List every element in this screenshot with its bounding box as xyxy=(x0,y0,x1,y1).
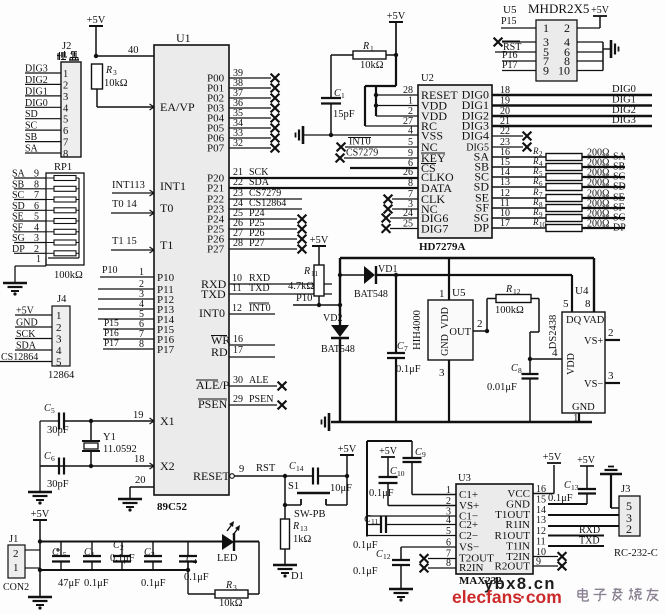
svg-text:5: 5 xyxy=(408,137,413,148)
svg-text:SF: SF xyxy=(12,222,24,233)
svg-text:8: 8 xyxy=(518,366,522,375)
svg-text:2: 2 xyxy=(477,318,483,330)
svg-text:VDD: VDD xyxy=(440,307,451,329)
svg-text:RST: RST xyxy=(256,463,276,474)
svg-text:0.1μF: 0.1μF xyxy=(353,566,378,577)
svg-text:Y1: Y1 xyxy=(103,432,116,443)
svg-text:+5V: +5V xyxy=(16,306,35,317)
svg-text:7: 7 xyxy=(34,190,39,201)
svg-text:3: 3 xyxy=(56,334,62,346)
svg-text:U2: U2 xyxy=(421,73,434,84)
svg-text:DIG2: DIG2 xyxy=(25,75,48,86)
svg-text:32: 32 xyxy=(233,138,243,149)
svg-text:C: C xyxy=(44,403,51,414)
svg-text:SA: SA xyxy=(25,144,39,155)
svg-text:28: 28 xyxy=(233,238,243,249)
svg-text:P16: P16 xyxy=(104,329,119,339)
svg-text:VS−: VS− xyxy=(584,379,603,390)
svg-text:9: 9 xyxy=(34,169,39,180)
svg-text:ALE: ALE xyxy=(249,375,268,386)
svg-text:20: 20 xyxy=(135,475,146,486)
svg-text:LED: LED xyxy=(217,553,238,564)
svg-text:0.1μF: 0.1μF xyxy=(396,364,421,375)
svg-text:4: 4 xyxy=(446,515,451,526)
svg-text:30pF: 30pF xyxy=(47,425,69,436)
svg-text:R: R xyxy=(105,65,112,76)
svg-text:0.1μF: 0.1μF xyxy=(84,578,109,589)
svg-text:DQ: DQ xyxy=(566,315,582,326)
svg-text:1: 1 xyxy=(439,288,445,300)
svg-text:R: R xyxy=(292,521,299,532)
svg-text:T1 15: T1 15 xyxy=(112,236,137,247)
svg-text:SCK: SCK xyxy=(16,329,36,340)
svg-text:R: R xyxy=(225,580,232,591)
svg-text:C: C xyxy=(84,547,91,558)
svg-text:8: 8 xyxy=(139,339,144,350)
svg-text:13: 13 xyxy=(300,524,308,533)
svg-text:SDA: SDA xyxy=(249,177,270,188)
svg-text:7: 7 xyxy=(539,191,543,199)
svg-text:P17: P17 xyxy=(157,344,175,356)
svg-text:10kΩ: 10kΩ xyxy=(104,78,128,89)
svg-text:1: 1 xyxy=(543,21,549,35)
svg-text:INT0: INT0 xyxy=(199,306,225,320)
svg-text:4.7kΩ: 4.7kΩ xyxy=(288,281,314,292)
svg-text:EA/VP: EA/VP xyxy=(160,100,195,114)
svg-text:C: C xyxy=(113,540,120,551)
svg-text:12: 12 xyxy=(536,526,546,537)
svg-text:R: R xyxy=(532,207,539,217)
svg-text:RD: RD xyxy=(211,345,228,359)
svg-text:INT113: INT113 xyxy=(112,180,145,191)
svg-text:4: 4 xyxy=(539,160,543,168)
svg-text:T0: T0 xyxy=(160,201,173,215)
svg-text:0.1μF: 0.1μF xyxy=(110,553,135,564)
svg-text:T1: T1 xyxy=(160,238,173,252)
svg-text:+5V: +5V xyxy=(310,235,329,246)
svg-text:R: R xyxy=(532,156,539,166)
svg-text:RP1: RP1 xyxy=(54,162,72,173)
svg-text:U5: U5 xyxy=(503,4,517,16)
svg-text:J2: J2 xyxy=(62,41,71,52)
svg-text:DIG1: DIG1 xyxy=(25,86,48,97)
svg-text:+5V: +5V xyxy=(577,455,596,466)
svg-text:P10: P10 xyxy=(102,265,118,276)
svg-text:INT0: INT0 xyxy=(349,137,371,148)
svg-text:SE: SE xyxy=(12,212,24,223)
svg-text:0.1μF: 0.1μF xyxy=(141,578,166,589)
svg-text:SA: SA xyxy=(12,169,26,180)
svg-text:+5V: +5V xyxy=(31,509,50,520)
svg-text:·com: ·com xyxy=(520,587,562,607)
svg-text:R: R xyxy=(505,284,512,295)
svg-text:5: 5 xyxy=(51,406,55,415)
svg-text:R: R xyxy=(532,176,539,186)
svg-text:C: C xyxy=(289,461,296,472)
svg-text:BAT548: BAT548 xyxy=(321,344,355,355)
svg-text:1: 1 xyxy=(446,485,451,496)
svg-text:C: C xyxy=(44,451,51,462)
svg-text:U1: U1 xyxy=(176,31,191,45)
svg-text:SB: SB xyxy=(25,132,38,143)
svg-text:SD: SD xyxy=(12,201,25,212)
svg-text:C: C xyxy=(397,341,404,352)
svg-text:R: R xyxy=(532,197,539,207)
svg-text:+5V: +5V xyxy=(379,446,398,457)
svg-text:P17: P17 xyxy=(104,339,119,349)
svg-text:18: 18 xyxy=(134,454,145,465)
svg-text:U4: U4 xyxy=(575,285,589,297)
svg-text:RC-232-C: RC-232-C xyxy=(614,548,658,559)
svg-text:S1: S1 xyxy=(288,481,299,492)
svg-text:R: R xyxy=(532,217,539,227)
svg-text:30: 30 xyxy=(233,375,243,386)
svg-text:GND: GND xyxy=(16,318,38,329)
svg-text:17: 17 xyxy=(233,345,243,356)
svg-text:5: 5 xyxy=(34,212,39,223)
svg-text:5: 5 xyxy=(539,170,543,178)
svg-text:DIG0: DIG0 xyxy=(25,98,48,109)
svg-text:7: 7 xyxy=(404,344,408,353)
svg-text:SW-PB: SW-PB xyxy=(294,509,326,520)
svg-text:2: 2 xyxy=(63,80,68,91)
svg-text:0.1μF: 0.1μF xyxy=(184,572,209,583)
svg-text:200Ω: 200Ω xyxy=(587,219,609,230)
svg-text:P10: P10 xyxy=(157,272,175,284)
svg-text:J4: J4 xyxy=(57,294,67,305)
svg-text:P15: P15 xyxy=(104,319,119,329)
svg-text:DS2438: DS2438 xyxy=(548,315,559,349)
svg-text:0.01μF: 0.01μF xyxy=(487,382,517,393)
svg-text:2: 2 xyxy=(564,21,570,35)
svg-text:T0 14: T0 14 xyxy=(112,199,138,210)
svg-text:15: 15 xyxy=(536,495,546,506)
svg-text:40: 40 xyxy=(128,45,139,56)
svg-text:+5V: +5V xyxy=(338,444,357,455)
svg-text:VD1: VD1 xyxy=(378,264,397,275)
svg-text:11: 11 xyxy=(536,537,546,548)
svg-text:U5: U5 xyxy=(452,287,466,299)
svg-text:0.1μF: 0.1μF xyxy=(353,540,378,551)
svg-text:DP: DP xyxy=(613,223,626,234)
svg-text:1: 1 xyxy=(63,69,68,80)
svg-text:PSEN: PSEN xyxy=(249,394,273,405)
svg-text:R: R xyxy=(362,41,369,52)
svg-text:R: R xyxy=(532,166,539,176)
svg-text:2: 2 xyxy=(626,522,632,536)
svg-text:J3: J3 xyxy=(621,484,630,495)
svg-text:3: 3 xyxy=(439,367,445,379)
svg-text:D1: D1 xyxy=(291,571,304,582)
svg-text:P10: P10 xyxy=(296,293,312,304)
svg-text:15pF: 15pF xyxy=(333,109,355,120)
svg-text:CON2: CON2 xyxy=(3,582,29,593)
svg-text:RESET: RESET xyxy=(193,469,230,483)
svg-text:J1: J1 xyxy=(9,534,18,545)
svg-text:2: 2 xyxy=(446,496,451,507)
svg-text:C: C xyxy=(334,88,341,99)
svg-text:1: 1 xyxy=(341,91,345,100)
svg-text:13: 13 xyxy=(571,483,579,492)
svg-text:TXD: TXD xyxy=(201,287,226,301)
svg-text:2: 2 xyxy=(120,543,124,552)
svg-text:DP: DP xyxy=(12,244,25,255)
svg-text:6: 6 xyxy=(63,126,68,137)
svg-text:C2−: C2− xyxy=(459,530,478,542)
svg-text:25: 25 xyxy=(403,219,413,230)
svg-text:1: 1 xyxy=(13,562,19,574)
svg-text:CS12864: CS12864 xyxy=(1,352,38,363)
svg-text:5: 5 xyxy=(563,298,569,310)
svg-text:14: 14 xyxy=(296,464,304,473)
svg-text:VDD: VDD xyxy=(566,353,577,375)
svg-text:SB: SB xyxy=(12,179,25,190)
svg-text:C: C xyxy=(144,547,151,558)
svg-text:OUT: OUT xyxy=(449,327,471,338)
svg-text:BAT548: BAT548 xyxy=(354,289,388,300)
svg-text:8: 8 xyxy=(63,149,68,160)
svg-text:2: 2 xyxy=(13,548,19,560)
svg-text:3: 3 xyxy=(151,550,155,559)
svg-text:C: C xyxy=(511,363,518,374)
svg-text:47μF: 47μF xyxy=(58,578,80,589)
svg-text:R2OUT: R2OUT xyxy=(495,561,531,573)
svg-text:10kΩ: 10kΩ xyxy=(360,60,384,71)
svg-text:DIG1: DIG1 xyxy=(612,95,636,106)
svg-text:3: 3 xyxy=(34,233,39,244)
svg-text:DP: DP xyxy=(474,221,490,235)
svg-text:HIH4000: HIH4000 xyxy=(412,310,423,350)
svg-text:elecfans: elecfans xyxy=(452,587,522,607)
svg-text:4: 4 xyxy=(193,557,197,566)
svg-text:29: 29 xyxy=(233,394,243,405)
svg-text:30pF: 30pF xyxy=(47,479,69,490)
svg-text:2: 2 xyxy=(608,327,614,339)
svg-text:24: 24 xyxy=(403,208,413,219)
svg-text:1kΩ: 1kΩ xyxy=(293,534,312,545)
svg-text:3: 3 xyxy=(63,92,68,103)
svg-text:R: R xyxy=(303,266,310,277)
svg-text:9: 9 xyxy=(539,211,543,219)
svg-text:11: 11 xyxy=(232,283,242,294)
svg-text:DIG3: DIG3 xyxy=(25,64,48,75)
svg-text:28: 28 xyxy=(403,85,413,96)
svg-text:4: 4 xyxy=(63,103,69,114)
svg-text:R: R xyxy=(532,146,539,156)
svg-text:11.0592: 11.0592 xyxy=(103,444,137,455)
svg-text:RXD: RXD xyxy=(579,525,600,536)
svg-text:DIG0: DIG0 xyxy=(612,84,636,95)
svg-text:6: 6 xyxy=(446,538,451,549)
svg-text:9: 9 xyxy=(543,64,549,78)
svg-text:P15: P15 xyxy=(501,16,517,27)
svg-text:TXD: TXD xyxy=(249,283,270,294)
svg-text:C: C xyxy=(564,480,571,491)
svg-text:12: 12 xyxy=(513,287,521,296)
svg-text:10μF: 10μF xyxy=(330,483,352,494)
svg-text:SD: SD xyxy=(613,182,626,193)
svg-text:5: 5 xyxy=(63,115,68,126)
svg-text:DIG3: DIG3 xyxy=(612,115,636,126)
svg-text:1: 1 xyxy=(36,254,41,265)
svg-text:12: 12 xyxy=(383,552,391,561)
svg-text:1: 1 xyxy=(56,310,62,322)
svg-text:3: 3 xyxy=(233,583,237,592)
svg-text:10: 10 xyxy=(397,469,405,478)
svg-text:2: 2 xyxy=(539,150,543,158)
svg-text:TXD: TXD xyxy=(579,536,600,547)
svg-text:89C52: 89C52 xyxy=(157,501,187,513)
svg-text:7: 7 xyxy=(63,138,68,149)
svg-text:SC: SC xyxy=(25,121,38,132)
svg-text:6: 6 xyxy=(34,201,39,212)
svg-text:P17: P17 xyxy=(502,60,518,71)
svg-text:X2: X2 xyxy=(160,459,175,473)
svg-text:C: C xyxy=(390,466,397,477)
svg-text:R2IN: R2IN xyxy=(459,562,484,574)
svg-text:P07: P07 xyxy=(207,143,225,155)
svg-text:C: C xyxy=(52,547,59,558)
svg-text:+5V: +5V xyxy=(387,11,406,22)
svg-text:C: C xyxy=(376,549,383,560)
svg-text:10kΩ: 10kΩ xyxy=(219,598,243,609)
svg-text:SG: SG xyxy=(12,233,25,244)
svg-text:12: 12 xyxy=(232,303,242,314)
svg-text:1: 1 xyxy=(91,550,95,559)
svg-text:0.1μF: 0.1μF xyxy=(369,488,394,499)
svg-text:+5V: +5V xyxy=(591,5,610,16)
svg-text:26: 26 xyxy=(403,167,413,178)
svg-text:SDA: SDA xyxy=(16,341,37,352)
svg-text:INT0: INT0 xyxy=(249,303,271,314)
svg-text:16: 16 xyxy=(233,334,243,345)
svg-text:9: 9 xyxy=(422,450,426,459)
svg-text:P27: P27 xyxy=(249,238,265,249)
svg-text:1: 1 xyxy=(408,96,413,107)
svg-text:X1: X1 xyxy=(160,414,175,428)
svg-text:4: 4 xyxy=(408,126,413,137)
svg-text:9: 9 xyxy=(239,464,244,475)
svg-text:4: 4 xyxy=(34,222,39,233)
svg-text:200Ω: 200Ω xyxy=(587,178,609,189)
svg-text:+5V: +5V xyxy=(543,452,562,463)
svg-text:R: R xyxy=(532,187,539,197)
svg-text:11: 11 xyxy=(311,269,318,278)
svg-text:0.1μF: 0.1μF xyxy=(548,493,573,504)
svg-text:1: 1 xyxy=(139,267,144,278)
svg-text:2: 2 xyxy=(56,322,62,334)
svg-text:6: 6 xyxy=(539,180,543,188)
svg-text:DIG4: DIG4 xyxy=(462,129,489,143)
svg-text:3: 3 xyxy=(113,68,117,77)
svg-text:8: 8 xyxy=(408,178,413,189)
svg-text:VD2: VD2 xyxy=(323,313,342,324)
svg-text:MHDR2X5: MHDR2X5 xyxy=(528,1,589,16)
svg-text:8: 8 xyxy=(446,558,451,569)
svg-text:DIG7: DIG7 xyxy=(421,222,448,236)
svg-text:1: 1 xyxy=(370,44,374,53)
svg-text:HD7279A: HD7279A xyxy=(419,241,466,253)
svg-text:8: 8 xyxy=(585,298,591,310)
svg-text:8: 8 xyxy=(34,179,39,190)
svg-text:13: 13 xyxy=(536,515,546,526)
svg-text:INT1: INT1 xyxy=(160,179,186,193)
svg-text:P27: P27 xyxy=(207,244,225,256)
svg-text:6: 6 xyxy=(51,454,55,463)
svg-text:22: 22 xyxy=(233,177,243,188)
svg-text:U3: U3 xyxy=(458,473,471,484)
svg-text:10: 10 xyxy=(558,64,570,78)
svg-text:15: 15 xyxy=(59,550,67,559)
svg-text:+5V: +5V xyxy=(87,15,106,26)
svg-text:C: C xyxy=(186,554,193,565)
svg-text:VAD: VAD xyxy=(583,315,605,326)
svg-text:CS7279: CS7279 xyxy=(346,148,378,159)
svg-text:5: 5 xyxy=(446,526,451,537)
svg-text:19: 19 xyxy=(133,410,144,421)
svg-text:C: C xyxy=(364,514,371,525)
svg-text:12864: 12864 xyxy=(48,370,75,381)
svg-text:100kΩ: 100kΩ xyxy=(54,270,83,281)
svg-text:4: 4 xyxy=(56,345,62,357)
svg-text:SC: SC xyxy=(12,190,25,201)
svg-text:8: 8 xyxy=(539,201,543,209)
svg-text:VS+: VS+ xyxy=(584,336,603,347)
svg-text:SD: SD xyxy=(25,109,38,120)
svg-text:3: 3 xyxy=(608,370,614,382)
svg-text:C: C xyxy=(415,447,422,458)
svg-text:5: 5 xyxy=(56,357,62,369)
svg-text:100kΩ: 100kΩ xyxy=(495,305,524,316)
